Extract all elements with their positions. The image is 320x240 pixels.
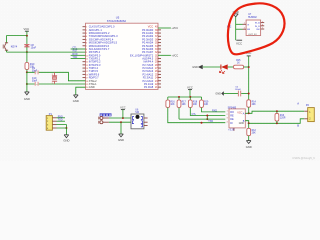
plug pin J1b [100, 121, 103, 124]
wire gnd to LED [203, 66, 221, 68]
svg-text:1K: 1K [237, 63, 240, 65]
resistor R15 [234, 65, 244, 69]
switch right pin stubs [144, 117, 148, 119]
svg-text:VCC: VCC [237, 112, 242, 115]
svg-text:+VCC: +VCC [171, 27, 178, 30]
ground left rail [25, 91, 30, 93]
svg-text:B: B [297, 124, 299, 128]
wire RE-DE bridge [206, 116, 208, 120]
wire xtal2 net [27, 71, 55, 73]
svg-text:HU6602: HU6602 [248, 16, 257, 19]
power VCC LED [248, 56, 250, 67]
svg-text:20K: 20K [252, 133, 257, 135]
svg-text:OUT_5V: OUT_5V [248, 34, 257, 36]
svg-text:6: 6 [262, 25, 263, 27]
svg-text:VCC: VCC [187, 86, 193, 90]
node bridge top [206, 115, 208, 117]
svg-text:RO: RO [230, 111, 234, 114]
svg-text:10K: 10K [170, 104, 175, 106]
svg-text:RXD: RXD [212, 109, 217, 112]
wire P1 pin3 [57, 125, 67, 128]
wire R17 to DI... actually R17 down [178, 108, 180, 120]
wire +VCC pin40 [158, 27, 171, 29]
SP3485 bottom pin stub [233, 128, 235, 131]
U7 pin 1 stub [243, 23, 247, 25]
svg-text:KEY4: KEY4 [11, 45, 18, 48]
connector P1 body [46, 116, 52, 131]
resistor R17 [178, 97, 180, 100]
svg-text:GND: GND [246, 145, 252, 149]
node xtal-c9 [26, 71, 28, 73]
svg-text:+VCC: +VCC [171, 55, 178, 58]
switch U6 body [131, 114, 144, 129]
node R19-DI [201, 122, 203, 124]
capacitor C8 10uF [26, 36, 28, 45]
node B R12 [248, 122, 250, 124]
wire gnd to C6 [224, 93, 238, 95]
svg-text:VCC: VCC [24, 27, 30, 31]
svg-text:100nF: 100nF [235, 89, 242, 91]
wire plug2 to switch [109, 121, 131, 123]
wire MCU GND [76, 87, 86, 95]
svg-text:GND: GND [192, 66, 198, 69]
svg-text:DE: DE [230, 118, 234, 121]
connector P2 body [308, 108, 315, 122]
crystal Y1 [54, 72, 56, 75]
plug pin J1a [100, 117, 103, 120]
wire net B [245, 119, 304, 124]
svg-text:CSDN @Xiong5_6: CSDN @Xiong5_6 [292, 156, 315, 160]
power VCC U7 [236, 39, 242, 41]
resistor R19 [201, 97, 203, 100]
svg-text:2: 2 [244, 27, 245, 29]
svg-text:GND: GND [239, 123, 244, 125]
svg-text:GND: GND [24, 97, 30, 101]
svg-text:DI: DI [230, 122, 233, 125]
node rail R18 [189, 96, 191, 98]
svg-text:R16: R16 [170, 102, 175, 104]
op-amp U7 body [246, 20, 261, 36]
wire TXD stub [71, 58, 86, 60]
svg-text:TXD: TXD [72, 56, 77, 59]
op-amp U5 microcontroller STC12C5A60S2 body [86, 23, 159, 89]
svg-text:EN: EN [247, 29, 250, 31]
annotation red circle [228, 3, 285, 54]
svg-text:R14: R14 [252, 101, 257, 103]
svg-text:10uF: 10uF [31, 47, 37, 50]
svg-text:30pF: 30pF [32, 71, 38, 73]
wire xtal2 to MCU [55, 72, 86, 81]
svg-text:A: A [297, 102, 299, 106]
op-amp U8 SP3485 transceiver body [229, 109, 245, 128]
svg-text:IN_A: IN_A [255, 22, 260, 25]
U7 right pin 7 [261, 28, 265, 30]
U7 pin 2 stub [243, 28, 247, 30]
wire net A [245, 111, 304, 113]
node VCC power [122, 117, 124, 119]
node gnd power [120, 121, 122, 123]
node rail R17 [178, 96, 180, 98]
svg-text:VCC: VCC [120, 105, 126, 109]
svg-text:SP3485: SP3485 [228, 106, 237, 109]
node RST junction [26, 51, 28, 53]
node A R13 [276, 110, 278, 112]
svg-text:R12: R12 [252, 130, 257, 132]
svg-text:P2.0/A8: P2.0/A8 [144, 85, 154, 89]
svg-text:GND: GND [89, 85, 95, 89]
svg-text:SW: SW [256, 29, 259, 31]
svg-text:GND: GND [118, 138, 124, 142]
resistor R14 [247, 100, 251, 107]
node A R14 [248, 112, 250, 114]
node bridge bottom [206, 118, 208, 120]
wire pullup rail [168, 96, 202, 98]
svg-text:1: 1 [244, 22, 245, 24]
wire U7 pin1 link [236, 23, 243, 25]
U7 right pin 5 [261, 22, 265, 24]
wire R15 to VCC node [244, 66, 249, 68]
svg-text:10K: 10K [182, 104, 187, 106]
node P1 gnd [65, 127, 67, 129]
svg-text:GND: GND [63, 138, 69, 142]
U7 right pin 6 [261, 25, 265, 27]
resistor R18 [189, 97, 191, 100]
svg-text:10K: 10K [193, 104, 198, 106]
push button KEY4 [6, 36, 8, 43]
switch left pin marks [132, 117, 134, 120]
wire DE [207, 118, 225, 120]
svg-text:5: 5 [262, 21, 263, 23]
wire +VCC P4.6 [158, 54, 171, 56]
wire R16 to DI net [168, 108, 226, 123]
wire U7 pin2 link [236, 28, 243, 30]
resistor R13 [276, 111, 278, 113]
wire rail to ground [26, 72, 28, 92]
svg-text:10K: 10K [204, 104, 209, 106]
svg-text:RE: RE [230, 115, 234, 118]
ground power input [119, 133, 124, 135]
node LED VCC [248, 66, 250, 68]
svg-text:R18: R18 [193, 102, 198, 104]
svg-text:GND: GND [215, 92, 221, 95]
ground MCU [74, 94, 79, 96]
node C6 VCC [248, 93, 250, 95]
wire plug1 to switch [109, 117, 131, 119]
wire P1 pin4 gnd [57, 128, 67, 135]
svg-text:+3.3V: +3.3V [228, 129, 235, 131]
wire R18 to RE [190, 108, 225, 116]
wire RXD stub [71, 54, 86, 56]
label power-in chinese [100, 114, 102, 116]
wire VCC to R14 [248, 67, 250, 100]
resistor R10 [26, 52, 28, 62]
svg-text:TXD: TXD [58, 119, 63, 122]
wire C6 to VCC line [241, 93, 249, 95]
svg-text:R17: R17 [182, 102, 187, 104]
node VCC-C8 [26, 35, 28, 37]
wire LED to R15 [228, 66, 234, 68]
capacitor C9 30pF [35, 70, 36, 74]
svg-text:STC12C5A60S2: STC12C5A60S2 [107, 19, 127, 23]
svg-text:TXD: TXD [208, 120, 213, 123]
wire VCC to key [7, 35, 27, 37]
node B R13 [276, 122, 278, 124]
svg-text:IN_B: IN_B [255, 26, 260, 28]
svg-text:CTL: CTL [72, 47, 77, 50]
svg-text:GND: GND [73, 99, 79, 103]
svg-text:VCC: VCC [236, 42, 242, 46]
svg-text:20K: 20K [252, 104, 257, 106]
node xtal-c10 [26, 83, 28, 85]
wire RST net [7, 51, 86, 53]
svg-text:7: 7 [262, 28, 263, 30]
svg-text:30pF: 30pF [32, 81, 38, 83]
wire P1 RXD [57, 117, 66, 119]
wire U7 gnd [235, 17, 237, 40]
wire CTL stub [71, 48, 86, 50]
capacitor C6 100nF [238, 91, 239, 97]
wire to power gnd [120, 122, 122, 134]
svg-text:R19: R19 [204, 102, 209, 104]
svg-text:120R: 120R [280, 118, 286, 120]
resistor R16 [167, 97, 169, 100]
resistor R12 [248, 123, 250, 128]
LED D1 [220, 65, 222, 70]
capacitor C10 30pF [35, 82, 36, 86]
svg-text:CTL: CTL [192, 113, 197, 116]
ground R12 [246, 140, 251, 142]
wire R19 to RO [202, 108, 226, 112]
svg-text:R15: R15 [236, 60, 241, 62]
ground P1 [64, 134, 69, 136]
wire xtal1 net [27, 83, 86, 85]
svg-text:R13: R13 [280, 115, 285, 117]
wire P1 TXD [57, 120, 66, 122]
